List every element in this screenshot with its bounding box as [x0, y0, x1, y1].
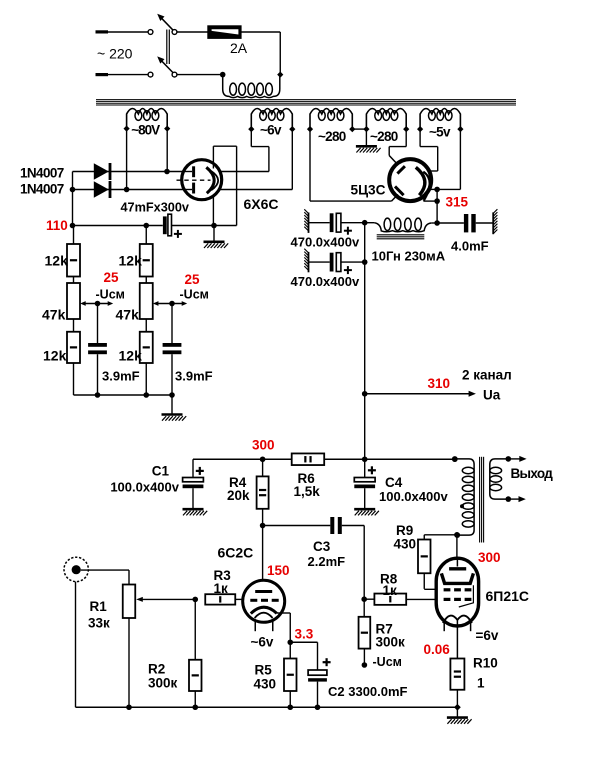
svg-text:~ 220: ~ 220	[97, 46, 133, 62]
svg-text:12k: 12k	[43, 348, 67, 364]
svg-text:C1: C1	[152, 464, 170, 479]
svg-text:~280: ~280	[370, 129, 398, 144]
svg-text:C3: C3	[313, 539, 331, 554]
svg-text:-Uсм: -Uсм	[373, 655, 402, 669]
svg-text:150: 150	[267, 563, 290, 578]
svg-text:25: 25	[185, 272, 201, 287]
svg-text:5Ц3С: 5Ц3С	[351, 182, 386, 198]
svg-text:3.9mF: 3.9mF	[175, 369, 213, 384]
svg-text:~5v: ~5v	[429, 124, 451, 139]
svg-text:315: 315	[446, 195, 469, 210]
svg-text:300: 300	[478, 550, 501, 565]
svg-text:47k: 47k	[42, 307, 66, 323]
svg-text:1,5k: 1,5k	[294, 484, 321, 499]
svg-text:C4: C4	[385, 475, 403, 490]
svg-text:430: 430	[254, 677, 277, 692]
svg-text:~6v: ~6v	[260, 123, 282, 138]
svg-text:25: 25	[104, 270, 120, 285]
svg-text:C2 3300.0mF: C2 3300.0mF	[328, 684, 408, 699]
svg-text:0.06: 0.06	[424, 642, 451, 657]
svg-text:430: 430	[394, 537, 417, 552]
svg-text:-Uсм: -Uсм	[180, 288, 209, 302]
svg-text:47mFx300v: 47mFx300v	[121, 200, 190, 215]
svg-text:6П21С: 6П21С	[486, 588, 530, 604]
svg-text:1к: 1к	[383, 583, 398, 598]
svg-text:300к: 300к	[376, 635, 406, 650]
svg-text:1: 1	[477, 676, 485, 691]
svg-text:Ua: Ua	[483, 388, 501, 403]
svg-text:3.3: 3.3	[295, 627, 314, 642]
svg-text:~6v: ~6v	[251, 635, 274, 650]
svg-text:R1: R1	[90, 599, 108, 614]
svg-text:110: 110	[46, 218, 68, 233]
svg-text:1к: 1к	[214, 581, 229, 596]
svg-text:~80V: ~80V	[131, 123, 160, 138]
svg-text:300к: 300к	[148, 676, 178, 691]
svg-text:2.2mF: 2.2mF	[308, 554, 346, 569]
svg-text:100.0x400v: 100.0x400v	[110, 480, 179, 495]
svg-text:Выход: Выход	[511, 466, 554, 481]
svg-text:47k: 47k	[116, 307, 140, 323]
svg-text:R2: R2	[148, 662, 165, 677]
svg-text:12k: 12k	[45, 253, 69, 269]
svg-text:-Uсм: -Uсм	[96, 288, 125, 302]
svg-text:6X6C: 6X6C	[244, 196, 279, 212]
svg-text:33к: 33к	[88, 616, 110, 631]
svg-text:6C2C: 6C2C	[218, 545, 254, 561]
svg-text:12k: 12k	[119, 253, 143, 269]
svg-text:~280: ~280	[318, 129, 346, 144]
svg-text:2 канал: 2 канал	[462, 368, 512, 383]
svg-text:310: 310	[428, 376, 451, 391]
svg-text:R10: R10	[473, 656, 498, 671]
svg-text:100.0x400v: 100.0x400v	[379, 489, 448, 504]
svg-text:2A: 2A	[230, 40, 248, 56]
svg-text:3.9mF: 3.9mF	[102, 369, 140, 384]
svg-text:20k: 20k	[227, 488, 250, 503]
svg-text:1N4007: 1N4007	[20, 166, 64, 181]
svg-text:10Гн 230мА: 10Гн 230мА	[372, 249, 446, 264]
svg-text:470.0x400v: 470.0x400v	[291, 274, 360, 289]
svg-text:300: 300	[252, 438, 275, 453]
svg-text:=6v: =6v	[476, 628, 499, 643]
svg-text:470.0x400v: 470.0x400v	[291, 235, 360, 250]
svg-text:4.0mF: 4.0mF	[451, 239, 489, 254]
svg-text:12k: 12k	[119, 348, 143, 364]
svg-text:R5: R5	[255, 663, 273, 678]
svg-text:1N4007: 1N4007	[20, 182, 64, 197]
